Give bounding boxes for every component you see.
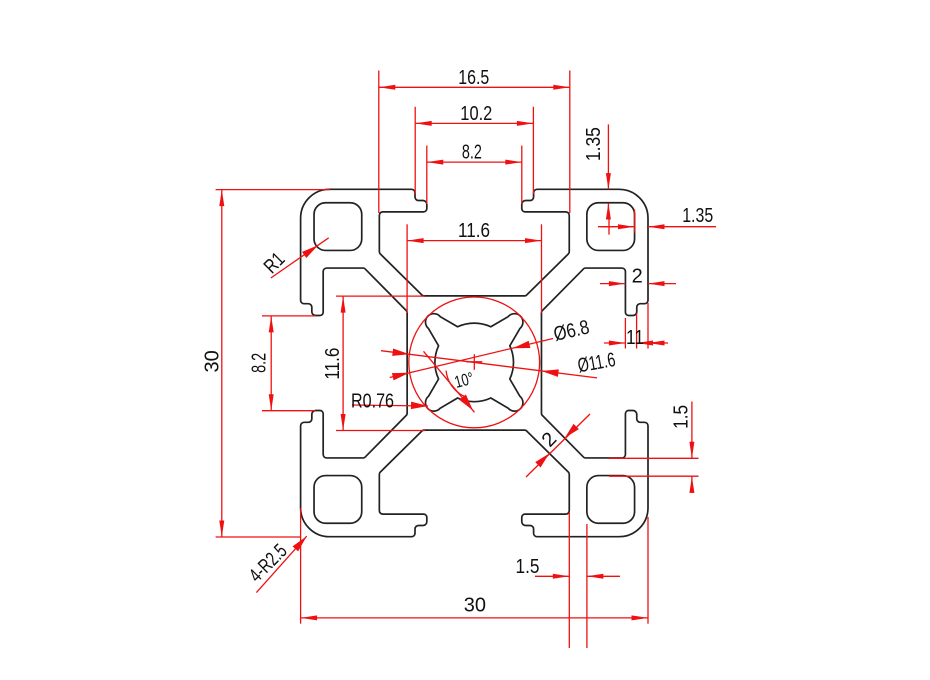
dimensions 1 and 1 (lip step thicknesses) (604, 303, 668, 349)
top-right corner screw hole (rounded square R1) (587, 203, 635, 251)
svg-text:30: 30 (201, 350, 223, 372)
radius label R0.76 (relief slot tip radius) (351, 390, 428, 412)
svg-text:16.5: 16.5 (458, 67, 489, 89)
top-left corner screw hole (rounded square R1) (314, 203, 362, 251)
dimension 2 (web thickness, diagonal) (526, 414, 590, 477)
radius label R1 (hole corner radius) (260, 238, 329, 278)
radius label 4-R2.5 (outer corners) (245, 536, 307, 592)
bottom-left corner screw hole (rounded square R1) (314, 476, 362, 524)
svg-text:11: 11 (626, 327, 644, 349)
dimension 1.5 (slot wall to hole, bottom) (516, 512, 621, 648)
svg-text:8.2: 8.2 (249, 353, 271, 373)
dimension 11.6 (core width, horizontal) (407, 220, 541, 313)
dimension 1.5 (block edge to hole, right) (609, 402, 699, 494)
svg-text:2: 2 (632, 265, 643, 287)
svg-text:R0.76: R0.76 (351, 390, 394, 412)
diameter label D6.8 (center bore) (390, 316, 592, 380)
svg-text:1.5: 1.5 (516, 556, 540, 578)
svg-text:1.5: 1.5 (670, 405, 692, 429)
diameter label D11.6 (relief circle) (381, 348, 617, 377)
dimension 11.6 (core height, vertical) (322, 296, 425, 430)
svg-text:11.6: 11.6 (458, 220, 490, 242)
center mark (466, 354, 482, 370)
svg-text:8.2: 8.2 (462, 141, 482, 163)
aluminum profile outline (30x30 T-slot cross-section) (301, 189, 648, 536)
dimension 16.5 (slot inner width) (379, 67, 570, 213)
svg-text:30: 30 (464, 595, 486, 617)
dimension 8.2 (left slot throat, vertical) (249, 316, 316, 411)
svg-text:11.6: 11.6 (322, 348, 344, 380)
center bore with X-shaped relief slots (D6.8) (425, 314, 522, 411)
dimension 10.2 (slot opening at surface) (415, 103, 533, 194)
bottom-right corner screw hole (rounded square R1) (587, 476, 635, 524)
dimension 8.2 (slot throat width) (427, 141, 522, 204)
dimension 30 (overall width) (301, 508, 648, 624)
construction circle D11.6 (409, 297, 540, 428)
dimension 2 (outer wall at slot lip) (600, 265, 676, 287)
svg-text:10.2: 10.2 (460, 103, 492, 125)
dimension 1.35 (top surface to hole, vertical) (583, 124, 611, 219)
svg-text:1.35: 1.35 (682, 205, 713, 227)
dimension 1.35 (hole to right surface) (598, 205, 716, 235)
angle label 10&#176; (424, 351, 476, 412)
dimension 30 (overall height) (201, 190, 330, 537)
svg-text:1.35: 1.35 (583, 127, 605, 161)
